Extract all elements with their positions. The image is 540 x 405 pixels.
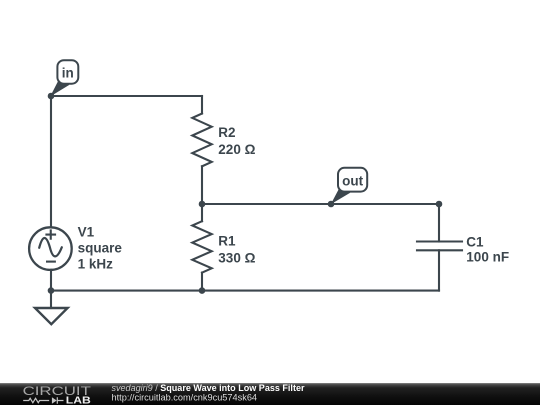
svg-text:R2: R2 xyxy=(218,125,235,140)
wire ground lead xyxy=(50,291,52,308)
svg-text:R1: R1 xyxy=(218,234,236,249)
resistor R2 xyxy=(192,114,211,167)
op V1 plus sign xyxy=(45,229,56,239)
node dot in xyxy=(48,93,55,100)
value V1 square xyxy=(78,241,123,256)
svg-text:LAB: LAB xyxy=(66,395,91,405)
wire C1 bottom lead xyxy=(438,250,440,290)
label V1 xyxy=(78,224,95,239)
wire V1 bottom lead xyxy=(50,270,52,291)
wire R2 top lead xyxy=(201,96,203,114)
ground xyxy=(35,308,68,324)
value R2 220 ohm xyxy=(218,142,255,157)
wire R2 bottom lead xyxy=(201,166,203,204)
footer credit line xyxy=(112,383,305,393)
wire middle horizontal node to C1 xyxy=(202,203,439,205)
svg-text:220 Ω: 220 Ω xyxy=(218,142,255,157)
wire R1 bottom lead xyxy=(201,273,203,291)
svg-text:V1: V1 xyxy=(78,224,95,239)
op V1 circle xyxy=(29,227,72,270)
wire R1 top lead xyxy=(201,204,203,221)
value V1 1 kHz xyxy=(78,257,114,272)
node dot C1 top xyxy=(436,201,443,208)
capacitor C1 xyxy=(417,242,462,251)
svg-text:in: in xyxy=(62,66,74,81)
op V1 sine glyph xyxy=(39,238,62,256)
value C1 100 nF xyxy=(466,250,509,265)
node dot R2-R1 junction xyxy=(199,201,206,208)
wire V1 top lead xyxy=(50,96,52,227)
net label in xyxy=(62,66,74,81)
footer url line xyxy=(112,392,258,402)
node dot V1 bottom xyxy=(48,287,55,294)
label R2 xyxy=(218,125,235,140)
footer bar xyxy=(0,383,540,405)
svg-text:out: out xyxy=(342,174,363,189)
footer logo LAB text xyxy=(66,395,91,405)
wire bottom horizontal xyxy=(51,290,439,292)
op V1 minus sign xyxy=(46,261,56,263)
wire top horizontal in to R2 xyxy=(51,95,202,97)
flag in tail xyxy=(50,78,69,97)
flag in bubble xyxy=(57,60,78,83)
svg-text:1 kHz: 1 kHz xyxy=(78,257,114,272)
svg-text:http://circuitlab.com/cnk9cu57: http://circuitlab.com/cnk9cu574sk64 xyxy=(112,392,258,402)
footer logo diode xyxy=(52,397,64,403)
svg-text:C1: C1 xyxy=(466,234,484,249)
flag out tail xyxy=(331,186,350,205)
footer logo CIRCUIT text xyxy=(23,386,91,398)
resistor R1 xyxy=(192,221,211,272)
svg-text:100 nF: 100 nF xyxy=(466,250,509,265)
svg-text:330 Ω: 330 Ω xyxy=(218,251,255,266)
flag out bubble xyxy=(338,168,367,192)
wire C1 top lead xyxy=(438,204,440,242)
node dot R1 bottom xyxy=(199,287,206,294)
footer logo resistor zigzag xyxy=(23,398,49,402)
node dot out xyxy=(328,201,335,208)
svg-text:square: square xyxy=(78,241,123,256)
value R1 330 ohm xyxy=(218,251,255,266)
label R1 xyxy=(218,234,236,249)
label C1 xyxy=(466,234,484,249)
net label out xyxy=(342,174,363,189)
